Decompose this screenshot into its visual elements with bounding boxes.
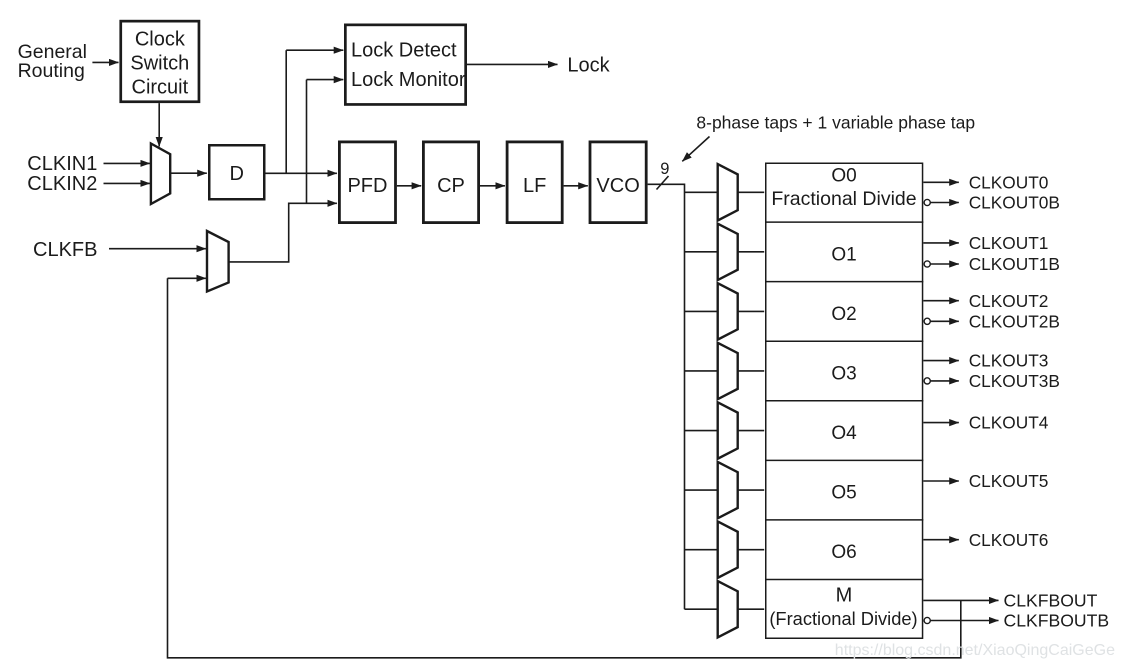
svg-text:VCO: VCO xyxy=(596,175,639,197)
svg-text:CLKOUT1B: CLKOUT1B xyxy=(969,254,1060,274)
svg-text:Circuit: Circuit xyxy=(132,76,189,98)
svg-text:O5: O5 xyxy=(831,483,856,504)
svg-text:CP: CP xyxy=(437,175,465,197)
svg-text:CLKOUT3: CLKOUT3 xyxy=(969,351,1049,371)
svg-text:CLKOUT6: CLKOUT6 xyxy=(969,530,1049,550)
svg-text:CLKOUT1: CLKOUT1 xyxy=(969,233,1049,253)
svg-text:CLKOUT0: CLKOUT0 xyxy=(969,172,1049,192)
svg-text:Lock Monitor: Lock Monitor xyxy=(351,69,466,91)
svg-text:8-phase taps + 1 variable phas: 8-phase taps + 1 variable phase tap xyxy=(696,113,975,133)
svg-text:O0: O0 xyxy=(831,166,856,187)
svg-text:O2: O2 xyxy=(831,304,856,325)
svg-text:9: 9 xyxy=(660,160,669,178)
svg-text:CLKIN2: CLKIN2 xyxy=(27,173,97,195)
svg-text:CLKOUT5: CLKOUT5 xyxy=(969,471,1049,491)
svg-text:CLKOUT4: CLKOUT4 xyxy=(969,413,1049,433)
svg-text:Clock: Clock xyxy=(135,29,186,51)
svg-text:D: D xyxy=(230,163,244,185)
svg-text:Routing: Routing xyxy=(18,60,85,82)
svg-text:Switch: Switch xyxy=(130,52,189,74)
svg-text:CLKOUT0B: CLKOUT0B xyxy=(969,193,1060,213)
svg-text:CLKOUT2: CLKOUT2 xyxy=(969,291,1049,311)
svg-text:Lock Detect: Lock Detect xyxy=(351,40,457,62)
svg-text:LF: LF xyxy=(523,175,546,197)
svg-text:O1: O1 xyxy=(831,244,856,265)
svg-text:CLKFBOUTB: CLKFBOUTB xyxy=(1004,611,1110,631)
svg-text:O3: O3 xyxy=(831,363,856,384)
svg-text:O4: O4 xyxy=(831,423,857,444)
svg-text:CLKOUT2B: CLKOUT2B xyxy=(969,311,1060,331)
svg-text:M: M xyxy=(836,585,853,607)
svg-text:Fractional Divide: Fractional Divide xyxy=(771,188,916,210)
svg-text:https://blog.csdn.net/XiaoQing: https://blog.csdn.net/XiaoQingCaiGeGe xyxy=(835,642,1115,659)
svg-text:Lock: Lock xyxy=(567,55,610,77)
svg-text:CLKOUT3B: CLKOUT3B xyxy=(969,371,1060,391)
svg-text:CLKFB: CLKFB xyxy=(33,239,97,261)
svg-text:CLKFBOUT: CLKFBOUT xyxy=(1004,591,1098,611)
svg-text:O6: O6 xyxy=(831,542,856,563)
svg-text:PFD: PFD xyxy=(347,175,387,197)
svg-text:CLKIN1: CLKIN1 xyxy=(27,153,97,175)
svg-text:(Fractional Divide): (Fractional Divide) xyxy=(769,608,917,629)
